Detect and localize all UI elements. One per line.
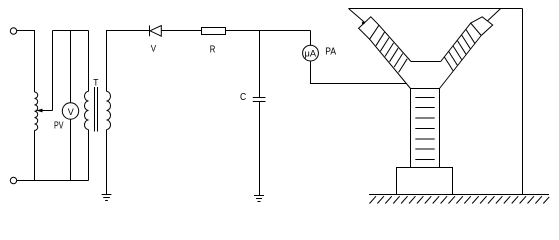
svg-text:V: V <box>68 107 75 118</box>
left arm hatching <box>376 32 407 72</box>
earth plane line <box>369 194 549 196</box>
left arm cap <box>359 17 379 39</box>
left arm inner edge <box>379 25 411 61</box>
wire node to capacitor <box>259 31 261 98</box>
column rungs <box>415 98 434 160</box>
resistor R <box>202 28 226 35</box>
right arm inner edge <box>441 23 471 61</box>
variac wiper arrow <box>40 110 53 112</box>
column body <box>411 89 440 168</box>
terminal X2 (bottom input) <box>10 177 16 183</box>
svg-text:T: T <box>93 77 98 88</box>
wire variac bottom to bottom bus <box>34 130 36 180</box>
right arm hatching <box>444 30 474 71</box>
wire top bus to transformer primary <box>88 31 90 92</box>
wire capacitor to ground <box>259 102 261 196</box>
earth hatching <box>370 196 550 203</box>
wire top bus to voltmeter <box>70 31 72 103</box>
wire secondary bottom to ground <box>106 130 108 195</box>
wire down to earth plane <box>522 9 524 195</box>
left arm outer edge <box>370 39 411 88</box>
top bus wire (wiper to transformer) <box>53 30 89 32</box>
wire primary bottom to bottom bus <box>88 130 90 181</box>
wire secondary top to HV bus <box>107 31 150 92</box>
terminal X1 (top input) <box>10 28 16 34</box>
diode V (cathode bar) <box>149 26 151 37</box>
lead-cap joint dot <box>362 22 365 25</box>
transformer core <box>94 87 96 132</box>
svg-text:C: C <box>240 92 246 103</box>
svg-text:PA: PA <box>325 47 336 58</box>
lead to left arm cap <box>349 9 365 23</box>
capacitor C plates <box>253 97 266 99</box>
ground (capacitor) <box>254 195 264 197</box>
voltmeter PV <box>62 103 78 119</box>
crotch line <box>411 61 441 63</box>
wire resistor to meter branch <box>225 30 310 32</box>
wire voltmeter to bottom bus <box>70 119 72 180</box>
svg-text:PV: PV <box>54 119 64 131</box>
HV top lead wire <box>349 8 523 10</box>
microammeter PA <box>303 45 319 61</box>
pedestal base <box>397 168 453 195</box>
autotransformer (variac) winding <box>35 92 38 130</box>
right arm cap <box>471 17 493 36</box>
transformer T secondary winding <box>107 91 111 129</box>
bottom bus wire <box>17 180 89 182</box>
wire from X1 to variac top <box>17 31 35 93</box>
diode V triangle <box>150 26 161 37</box>
lead from right arm cap <box>488 9 501 21</box>
wire meter to test object <box>311 61 407 84</box>
svg-text:V: V <box>151 43 156 53</box>
ground (transformer secondary) <box>102 194 112 196</box>
wire diode to resistor <box>161 30 202 32</box>
svg-text:R: R <box>210 45 216 56</box>
right arm outer edge <box>440 36 482 89</box>
wire wiper to top bus <box>52 31 54 111</box>
wire bus to microammeter <box>310 31 312 46</box>
svg-text:μA: μA <box>305 48 317 58</box>
transformer T primary winding <box>85 91 89 129</box>
